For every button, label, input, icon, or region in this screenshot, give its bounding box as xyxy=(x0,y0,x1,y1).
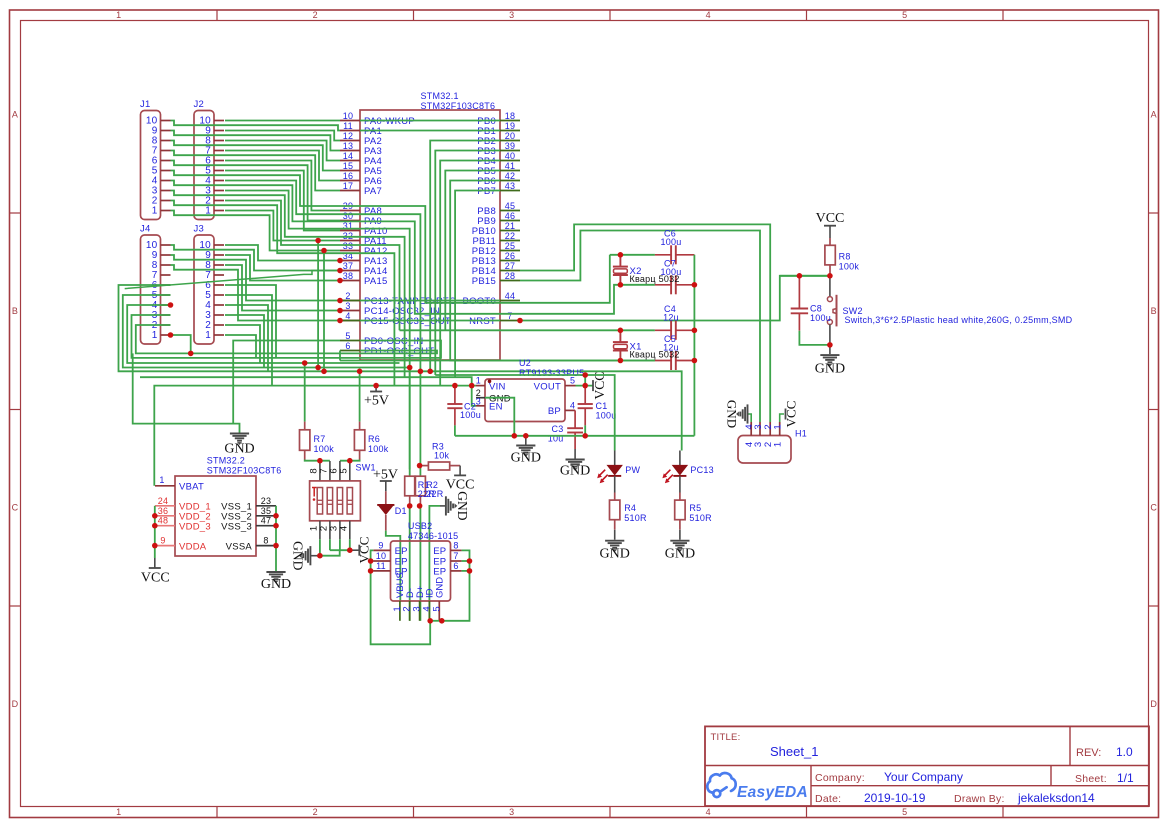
svg-text:46: 46 xyxy=(505,211,516,221)
svg-text:18: 18 xyxy=(505,111,516,121)
wire PW/VOUT line to PW LED xyxy=(435,375,614,451)
wire J1 pin4 to X2 bottom / C7 row via inner staircase xyxy=(171,181,621,314)
svg-text:43: 43 xyxy=(505,181,516,191)
wire bundle horizontal rails below J3/J4 xyxy=(136,325,437,353)
ground below SW2 xyxy=(829,345,831,354)
svg-text:B: B xyxy=(12,306,18,316)
svg-text:C: C xyxy=(1150,503,1157,513)
junction dots STM32.2 xyxy=(152,513,158,519)
svg-text:1/1: 1/1 xyxy=(1117,771,1134,785)
U2 pin4 BP xyxy=(565,409,575,411)
connector H1 xyxy=(738,436,791,464)
svg-text:C3: C3 xyxy=(551,424,563,434)
svg-text:STM32.1: STM32.1 xyxy=(421,91,459,101)
svg-text:1.0: 1.0 xyxy=(1116,745,1133,759)
U STM32.1 left pins PA PC PD xyxy=(340,120,360,122)
svg-text:STM32.2: STM32.2 xyxy=(207,456,245,466)
wire J1 pin3 to L6 rail via inner staircase xyxy=(171,191,405,378)
svg-text:2: 2 xyxy=(763,442,774,447)
svg-text:2: 2 xyxy=(345,291,350,301)
junction dots U2 area xyxy=(452,383,458,389)
wire C7 row xyxy=(620,284,655,286)
svg-text:10: 10 xyxy=(376,551,387,561)
svg-text:9: 9 xyxy=(378,540,383,550)
svg-text:4: 4 xyxy=(706,10,711,20)
svg-text:6: 6 xyxy=(345,341,350,351)
svg-text:10k: 10k xyxy=(434,450,450,460)
svg-text:C1: C1 xyxy=(596,401,608,411)
wire J1 pin2 to +5V rail via inner staircase xyxy=(171,201,395,386)
svg-text:22: 22 xyxy=(505,231,516,241)
svg-text:28: 28 xyxy=(505,271,516,281)
wire bus J1/J2 to MCU PA/PC staircase xyxy=(225,120,340,122)
svg-text:PC13: PC13 xyxy=(690,465,714,475)
power symbol VCC right of SW1 pin4 xyxy=(358,545,360,556)
frame row ticks right xyxy=(1149,212,1160,214)
svg-text:TITLE:: TITLE: xyxy=(711,732,741,743)
svg-text:36: 36 xyxy=(158,506,169,516)
STM32.2 pin VBAT xyxy=(155,485,175,487)
wire bus J3/J4 to MCU PA13-PA15 PC13-PC15 xyxy=(225,245,340,261)
svg-text:38: 38 xyxy=(343,271,354,281)
svg-text:A: A xyxy=(12,110,18,120)
svg-text:41: 41 xyxy=(505,161,516,171)
svg-text:7: 7 xyxy=(507,311,512,321)
svg-text:GND: GND xyxy=(665,547,695,562)
svg-text:PB15: PB15 xyxy=(472,276,496,287)
resistor R5 510R xyxy=(679,493,681,501)
svg-text:GND: GND xyxy=(290,541,305,570)
svg-text:R4: R4 xyxy=(624,503,636,513)
svg-text:Sheet:: Sheet: xyxy=(1075,773,1107,785)
svg-text:40: 40 xyxy=(505,151,516,161)
resistor R1 22R xyxy=(409,368,411,477)
svg-text:4: 4 xyxy=(570,401,575,411)
wire PB3 row across chip down to PW/VOUT line xyxy=(435,151,500,376)
svg-text:+5V: +5V xyxy=(364,394,389,409)
svg-text:PC15-OSC32_OUT: PC15-OSC32_OUT xyxy=(364,316,451,327)
svg-text:EP: EP xyxy=(433,567,446,578)
crystal X2 Кварц 5032 xyxy=(619,255,621,267)
ground below C3 xyxy=(574,449,576,459)
svg-text:A: A xyxy=(1151,110,1157,120)
svg-text:16: 16 xyxy=(343,171,354,181)
svg-text:GND: GND xyxy=(815,362,845,377)
svg-text:Drawn By:: Drawn By: xyxy=(954,793,1005,805)
wire PD1 drop to X1 bottom row xyxy=(339,351,341,361)
LED PW xyxy=(614,451,616,466)
U STM32.1 right pins PB BOOT0 NRST xyxy=(500,120,520,122)
switch SW2 xyxy=(829,276,831,297)
crystal X1 Кварц 5032 xyxy=(619,330,621,342)
power symbol VCC right of U2 xyxy=(592,380,594,391)
svg-text:GND: GND xyxy=(455,491,470,520)
svg-text:47: 47 xyxy=(261,516,272,526)
wire ground rail under U2 xyxy=(455,435,695,437)
svg-text:Кварц 5032: Кварц 5032 xyxy=(630,274,680,284)
svg-text:BP: BP xyxy=(548,406,561,417)
svg-text:1: 1 xyxy=(152,206,158,217)
svg-text:PD1-OSC_OUT: PD1-OSC_OUT xyxy=(364,346,434,357)
U2 pin5 VOUT xyxy=(565,385,576,387)
resistor R4 510R xyxy=(614,493,616,501)
capacitor C1 100u xyxy=(584,386,586,404)
svg-text:GND: GND xyxy=(511,451,541,466)
svg-text:5: 5 xyxy=(338,468,349,473)
svg-text:2: 2 xyxy=(313,807,318,817)
svg-text:D1: D1 xyxy=(395,506,407,516)
USB2 left pin 9 EP xyxy=(373,549,390,551)
wire R1 bottom to USB D- xyxy=(409,506,411,621)
wire PA12 tap down to L5 (USB D+) xyxy=(323,251,325,372)
wire U2 GND pin to ground rail xyxy=(485,398,514,436)
svg-text:BOOT0: BOOT0 xyxy=(463,296,496,307)
USB2 left pin 11 EP xyxy=(373,570,390,572)
junction dots SW1 xyxy=(317,458,323,464)
svg-text:3: 3 xyxy=(509,10,514,20)
svg-text:NRST: NRST xyxy=(469,316,496,327)
svg-text:PA7: PA7 xyxy=(364,186,382,197)
svg-text:1: 1 xyxy=(116,10,121,20)
svg-text:23: 23 xyxy=(261,496,272,506)
svg-text:4: 4 xyxy=(744,442,755,447)
ground below R5 xyxy=(679,530,681,540)
U2 pin2 GND xyxy=(476,397,485,399)
svg-text:PW: PW xyxy=(625,465,640,475)
wire D1 to USB VBUS xyxy=(386,531,401,601)
USB2 bottom pins VBUS D- D+ ID GND xyxy=(399,601,401,621)
USB2 left pin 10 EP xyxy=(373,560,390,562)
svg-text:15: 15 xyxy=(343,161,354,171)
svg-text:J4: J4 xyxy=(140,224,151,235)
svg-text:44: 44 xyxy=(505,291,516,301)
LED PC13 xyxy=(679,451,681,466)
ground left of SW1 xyxy=(310,555,317,557)
svg-text:14: 14 xyxy=(343,151,354,161)
svg-text:1: 1 xyxy=(116,807,121,817)
svg-text:EP: EP xyxy=(395,546,408,557)
wire PB7 row across chip down to L6 rail xyxy=(455,191,500,378)
svg-text:VIN: VIN xyxy=(489,382,506,393)
svg-text:100k: 100k xyxy=(314,444,335,454)
svg-text:8: 8 xyxy=(453,540,458,550)
svg-text:100u: 100u xyxy=(810,313,831,323)
title block xyxy=(705,726,1149,806)
svg-text:VSS_3: VSS_3 xyxy=(221,521,252,532)
svg-text:R5: R5 xyxy=(689,503,701,513)
wire H1 pin4 to GND xyxy=(748,414,752,422)
svg-text:11: 11 xyxy=(376,561,386,571)
svg-text:VOUT: VOUT xyxy=(534,382,561,393)
power symbol +5V on rail xyxy=(370,391,382,393)
svg-text:30: 30 xyxy=(343,211,354,221)
svg-text:VCC: VCC xyxy=(446,478,475,493)
svg-text:R8: R8 xyxy=(839,252,851,262)
wire VOUT to VCC xyxy=(576,385,594,387)
capacitor C7 100u xyxy=(655,284,671,286)
junction dots MCU left pins xyxy=(337,258,343,264)
wire J2 pin3 to R1 column via inner staircase xyxy=(225,191,410,368)
svg-text:D: D xyxy=(1150,699,1157,709)
svg-text:4: 4 xyxy=(706,807,711,817)
power symbol VCC below R3 xyxy=(459,466,461,476)
svg-text:35: 35 xyxy=(261,506,272,516)
svg-text:Кварц 5032: Кварц 5032 xyxy=(630,350,680,360)
wire H1 pin1 to VCC xyxy=(780,414,784,422)
svg-text:3: 3 xyxy=(509,807,514,817)
svg-text:33: 33 xyxy=(343,241,354,251)
svg-text:J1: J1 xyxy=(140,99,151,110)
svg-text:1: 1 xyxy=(159,475,164,485)
svg-text:VDDA: VDDA xyxy=(179,541,207,552)
STM32.2 VDD pins xyxy=(155,505,175,507)
svg-text:21: 21 xyxy=(505,221,516,231)
wire PB15 to H1 pin3 xyxy=(520,231,760,423)
svg-text:5: 5 xyxy=(345,331,350,341)
svg-text:1: 1 xyxy=(152,330,158,341)
svg-text:U2: U2 xyxy=(519,358,531,368)
capacitor C8 100u xyxy=(798,276,800,309)
wire VDD rail to VCC xyxy=(154,506,156,558)
capacitor C2 100u xyxy=(454,386,456,404)
U2 pin3 EN xyxy=(476,405,485,407)
wire J1 pin1 to PA12 xyxy=(171,211,341,251)
ground below R4 xyxy=(614,530,616,540)
svg-text:17: 17 xyxy=(343,181,354,191)
svg-text:R7: R7 xyxy=(314,434,326,444)
wire PB2 row across chip down to L5 xyxy=(430,141,500,372)
svg-text:26: 26 xyxy=(505,251,516,261)
svg-text:2019-10-19: 2019-10-19 xyxy=(864,791,926,805)
svg-text:GND: GND xyxy=(560,464,590,479)
wire R2 bottom to USB D+ xyxy=(419,506,421,621)
svg-text:VCC: VCC xyxy=(783,401,798,428)
svg-text:J3: J3 xyxy=(194,224,205,235)
svg-text:1: 1 xyxy=(773,424,784,429)
svg-text:4: 4 xyxy=(338,526,349,531)
svg-text:3: 3 xyxy=(476,397,481,407)
wire J4 pin1 jog down to L1 xyxy=(171,335,191,353)
svg-text:jekaleksdon14: jekaleksdon14 xyxy=(1017,791,1095,805)
svg-text:Company:: Company: xyxy=(815,772,865,784)
resistor R8 100k xyxy=(829,238,831,245)
wire USB ID to GND arrow xyxy=(429,506,440,621)
svg-text:D: D xyxy=(12,699,19,709)
wire +5V rail xyxy=(154,386,476,486)
svg-text:5: 5 xyxy=(431,606,442,611)
svg-text:Date:: Date: xyxy=(815,793,841,805)
svg-text:VDD_3: VDD_3 xyxy=(179,521,211,532)
svg-text:1: 1 xyxy=(476,376,481,386)
wire SW1 ground rail xyxy=(317,550,340,556)
ground below STM32.2 xyxy=(275,571,277,572)
svg-text:GND: GND xyxy=(435,577,446,598)
svg-text:PA15: PA15 xyxy=(364,276,388,287)
wire SW1 pin1 to GND rail xyxy=(319,539,321,556)
wire J2 pin1 to PA11 xyxy=(225,211,340,241)
svg-text:C8: C8 xyxy=(810,304,822,314)
svg-text:VBAT: VBAT xyxy=(179,482,204,493)
wire C4 row xyxy=(400,329,655,331)
wire GND branch mid-left xyxy=(133,353,240,432)
svg-text:100k: 100k xyxy=(839,262,860,272)
wire J2 pin2 to C4 / X1 top row via inner staircase xyxy=(225,201,400,331)
wire J2 pin4 to R2 column via inner staircase xyxy=(225,181,420,372)
svg-text:Switch,3*6*2.5Plastic head whi: Switch,3*6*2.5Plastic head white,260G, 0… xyxy=(845,315,1073,325)
svg-text:100k: 100k xyxy=(368,444,389,454)
wire USB2 ID/GND bottom junctions xyxy=(430,620,442,622)
wire EN to +5V rail jog xyxy=(472,386,476,406)
svg-text:GND: GND xyxy=(725,400,740,428)
USB2 right pin 8 EP xyxy=(451,549,462,551)
svg-text:2: 2 xyxy=(763,424,774,429)
capacitor C5 12u xyxy=(655,360,671,362)
svg-text:VSSA: VSSA xyxy=(226,541,253,552)
resistor R6 100k xyxy=(359,371,361,421)
frame column ticks bottom xyxy=(216,807,218,818)
svg-text:GND: GND xyxy=(261,577,291,592)
svg-text:100u: 100u xyxy=(460,410,481,420)
svg-text:11: 11 xyxy=(343,121,353,131)
svg-text:25: 25 xyxy=(505,241,516,251)
wire PB14 to H1 pin2 xyxy=(520,224,770,422)
svg-text:13: 13 xyxy=(343,141,354,151)
wire VOUT up to PW line xyxy=(584,375,586,386)
svg-text:27: 27 xyxy=(505,261,516,271)
svg-text:C: C xyxy=(12,503,19,513)
svg-text:1: 1 xyxy=(773,442,784,447)
svg-text:42: 42 xyxy=(505,171,516,181)
resistor R2 22R xyxy=(419,371,421,476)
wire R8 bottom to NRST riser and C8 xyxy=(780,275,830,277)
svg-text:3: 3 xyxy=(345,301,350,311)
frame column ticks top xyxy=(216,10,218,21)
svg-text:B: B xyxy=(1151,306,1157,316)
junction dots R1 R2 R3 xyxy=(407,503,413,509)
svg-text:12u: 12u xyxy=(663,313,679,323)
svg-text:J2: J2 xyxy=(194,99,205,110)
svg-text:REV:: REV: xyxy=(1076,747,1101,759)
svg-text:5: 5 xyxy=(902,807,907,817)
svg-text:5: 5 xyxy=(570,376,575,386)
svg-text:45: 45 xyxy=(505,201,516,211)
wire PB4 row across chip down to +5V rail xyxy=(440,161,500,386)
wire NRST to R8/SW2/C8 xyxy=(520,276,830,321)
svg-text:510R: 510R xyxy=(624,513,647,523)
USB2 right pin 6 EP xyxy=(451,570,462,572)
svg-text:22R: 22R xyxy=(426,489,444,499)
svg-text:48: 48 xyxy=(158,516,169,526)
svg-text:H1: H1 xyxy=(795,429,807,439)
wire PA11 tap down to L4 (USB D-) xyxy=(317,241,319,368)
wire R7 to SW1 pins 8/7 xyxy=(305,460,330,461)
svg-text:VCC: VCC xyxy=(141,571,170,586)
svg-text:10: 10 xyxy=(343,111,354,121)
power symbol VCC below STM32.2 xyxy=(154,558,156,568)
U2 pin1 VIN xyxy=(476,385,485,387)
wire PB5 row across chip down to X1 top row xyxy=(445,171,500,331)
svg-text:STM32F103C8T6: STM32F103C8T6 xyxy=(207,466,282,476)
svg-text:USB2: USB2 xyxy=(408,521,433,531)
EasyEDA logo xyxy=(707,773,735,797)
svg-text:37: 37 xyxy=(343,261,354,271)
svg-text:100u: 100u xyxy=(596,411,617,421)
svg-text:9: 9 xyxy=(160,536,165,546)
svg-text:VCC: VCC xyxy=(816,211,845,226)
svg-text:100u: 100u xyxy=(660,237,681,247)
svg-text:Your Company: Your Company xyxy=(884,770,963,784)
wire right GND column of crystal block xyxy=(693,255,695,436)
svg-text:1: 1 xyxy=(205,330,211,341)
wire PA1 row across chip to PB1 xyxy=(360,130,500,132)
svg-text:510R: 510R xyxy=(689,513,712,523)
ground mid-left xyxy=(230,434,249,445)
svg-text:2: 2 xyxy=(313,10,318,20)
svg-text:39: 39 xyxy=(505,141,516,151)
capacitor C3 10u on BP xyxy=(574,409,576,411)
svg-text:6: 6 xyxy=(453,561,458,571)
ground below U2 xyxy=(525,436,527,445)
wire C6 row xyxy=(610,254,655,256)
wire C5 row xyxy=(340,360,655,362)
svg-text:R6: R6 xyxy=(368,434,380,444)
junction dots R8/SW2/C8 xyxy=(827,273,833,279)
wire VSS rail to GND xyxy=(275,506,277,571)
power symbol VCC right of H1 xyxy=(785,409,787,420)
wire USB2 pins 9/10/11 ground loop xyxy=(371,550,431,644)
svg-text:GND: GND xyxy=(224,442,254,457)
junction dots USB2 xyxy=(368,558,374,564)
wire diagonal J4 area to PA14 row xyxy=(125,271,340,289)
wire R6 to SW1 pins 6/5 xyxy=(340,460,360,461)
capacitor C6 100u xyxy=(655,254,671,256)
svg-text:7: 7 xyxy=(453,551,458,561)
wire PD0 left branch to GND xyxy=(233,341,340,424)
wire J1 pin5 to X2 top / C6 row via inner staircase xyxy=(171,171,610,303)
svg-text:12: 12 xyxy=(343,131,354,141)
svg-text:PB7: PB7 xyxy=(477,186,496,197)
STM32.2 VSS pins xyxy=(256,505,276,507)
diode D1 xyxy=(385,491,387,505)
junction dots crystal block xyxy=(618,252,624,258)
USB2 right pin 7 EP xyxy=(451,560,462,562)
wire PB6 row across chip down to X1 bottom row xyxy=(450,181,655,361)
capacitor C4 12u xyxy=(655,329,671,331)
svg-text:47346-1015: 47346-1015 xyxy=(408,531,459,541)
svg-text:EN: EN xyxy=(489,402,503,413)
ground right of USB ID wire xyxy=(440,505,446,507)
resistor R7 100k xyxy=(304,363,306,422)
svg-text:GND: GND xyxy=(600,547,630,562)
svg-text:8: 8 xyxy=(263,536,268,546)
svg-text:20: 20 xyxy=(505,131,516,141)
wire SW1 pins 2-4 rail xyxy=(329,539,331,550)
svg-text:19: 19 xyxy=(505,121,516,131)
junction dots rails xyxy=(302,360,308,366)
wire J3 lower pins down to rails xyxy=(225,335,256,358)
svg-text:EasyEDA: EasyEDA xyxy=(737,784,808,801)
wire PA0 row across chip to PB0 xyxy=(360,120,500,122)
svg-text:5: 5 xyxy=(902,10,907,20)
junction dot NRST xyxy=(517,318,523,324)
svg-text:EP: EP xyxy=(433,546,446,557)
frame row ticks left xyxy=(10,212,21,214)
wire SW1 pin4 junction to VCC xyxy=(350,549,360,551)
svg-text:4: 4 xyxy=(345,311,350,321)
wire USB2 pins 7/6 to right column xyxy=(462,560,470,562)
junction dots J4 xyxy=(168,302,174,308)
ground left of H1 xyxy=(737,404,748,423)
